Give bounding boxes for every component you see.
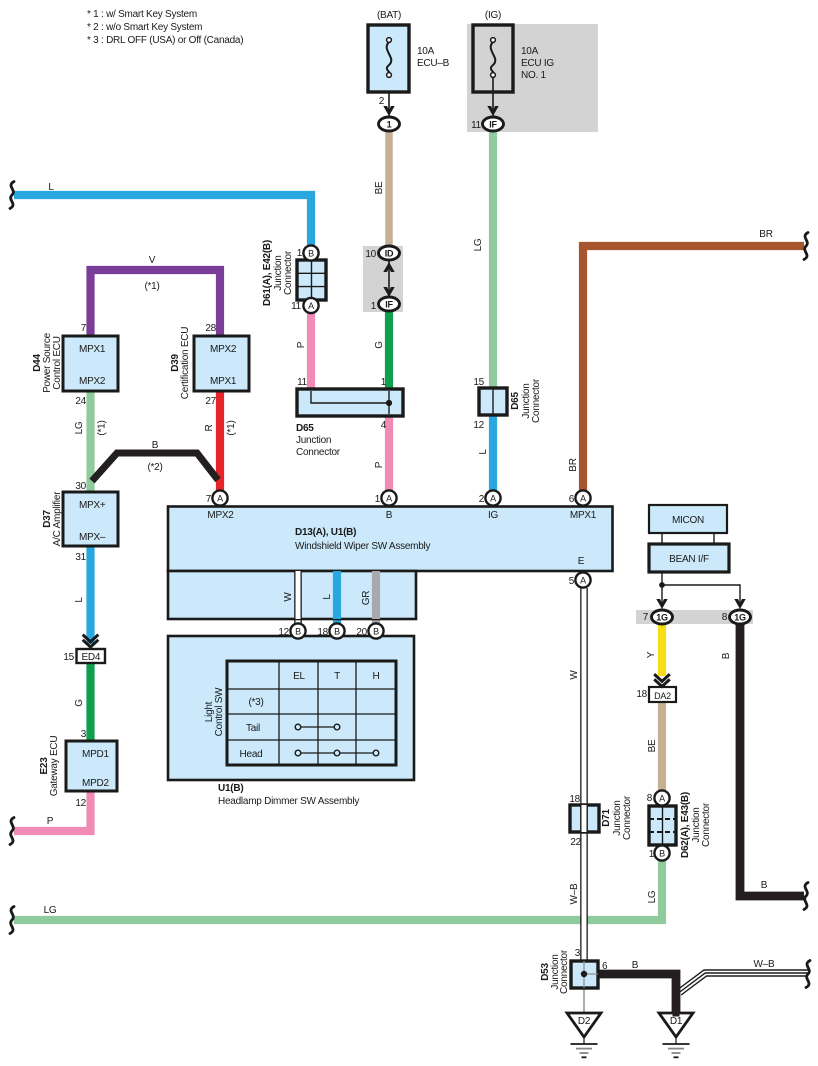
connector circle B (D61) — [303, 245, 318, 260]
svg-text:* 2 : w/o Smart Key System: * 2 : w/o Smart Key System — [87, 22, 202, 33]
svg-text:W–B: W–B — [569, 883, 580, 905]
wire GR (wiper box) — [372, 571, 380, 624]
re-draw wires over lower section — [298, 571, 376, 619]
svg-text:1: 1 — [381, 377, 387, 388]
svg-text:12: 12 — [75, 798, 86, 809]
svg-text:22: 22 — [570, 837, 581, 848]
svg-text:D1: D1 — [670, 1016, 683, 1027]
connector circle A2 — [485, 490, 500, 505]
svg-text:D61(A), E42(B): D61(A), E42(B) — [262, 240, 273, 306]
E23 labels — [39, 729, 109, 809]
table contacts tail — [298, 726, 337, 728]
connector circle A (D62) — [654, 790, 669, 805]
wire BR (cowl to 6A) — [583, 246, 804, 492]
svg-text:NO. 1: NO. 1 — [521, 70, 547, 81]
junction connector D62 — [649, 806, 676, 845]
svg-text:G: G — [374, 341, 385, 349]
BEAN I/F box — [649, 544, 729, 572]
svg-text:Tail: Tail — [246, 723, 260, 734]
svg-text:1: 1 — [371, 301, 377, 312]
ground D2 — [567, 1013, 601, 1057]
svg-text:MPX+: MPX+ — [79, 500, 106, 511]
svg-text:1G: 1G — [734, 613, 746, 623]
svg-text:1: 1 — [649, 849, 655, 860]
svg-text:(*1): (*1) — [144, 281, 159, 292]
gray panel (IG fuse area) — [467, 24, 598, 132]
arrow into circle 1 — [383, 106, 394, 116]
svg-text:3: 3 — [575, 948, 581, 959]
svg-text:G: G — [74, 699, 85, 707]
wire V (D44 to D39) — [91, 270, 221, 336]
wire W (5A to D53) — [580, 588, 588, 961]
svg-text:MPD2: MPD2 — [82, 778, 109, 789]
B circle pin numbers — [278, 627, 367, 638]
svg-text:7: 7 — [643, 612, 649, 623]
svg-text:E: E — [578, 556, 585, 567]
ECU box E23 — [66, 741, 117, 791]
chevrons into DA2 — [654, 674, 670, 686]
svg-text:B: B — [659, 849, 665, 859]
svg-text:20: 20 — [356, 627, 367, 638]
svg-text:24: 24 — [75, 396, 86, 407]
svg-text:1: 1 — [375, 494, 381, 505]
svg-text:(*1): (*1) — [226, 420, 237, 435]
svg-text:7: 7 — [206, 494, 212, 505]
svg-text:W–B: W–B — [754, 959, 776, 970]
connector circle A5 — [575, 572, 590, 587]
svg-text:6: 6 — [602, 961, 608, 972]
svg-text:BE: BE — [647, 739, 658, 752]
svg-text:8: 8 — [647, 793, 653, 804]
connector circle IF (lower) — [379, 297, 400, 311]
svg-text:V: V — [149, 255, 156, 266]
svg-text:1: 1 — [387, 120, 392, 130]
D53 labels — [540, 948, 608, 994]
svg-text:12: 12 — [278, 627, 289, 638]
connector circle 1G no8 — [730, 610, 751, 624]
svg-text:MPX–: MPX– — [79, 532, 106, 543]
D37 labels — [42, 481, 106, 563]
lead ID-IF — [388, 260, 390, 297]
svg-text:MPX1: MPX1 — [570, 510, 597, 521]
svg-text:(IG): (IG) — [485, 10, 501, 21]
svg-text:Connector: Connector — [701, 802, 712, 847]
junction connector D53 — [571, 961, 598, 988]
svg-text:Connector: Connector — [283, 250, 294, 295]
light control SW table — [227, 661, 396, 765]
gray block (ID/IF) — [363, 246, 403, 312]
svg-text:MPD1: MPD1 — [82, 749, 109, 760]
svg-text:A: A — [490, 494, 496, 504]
svg-text:10A: 10A — [521, 46, 539, 57]
D44 labels — [32, 323, 87, 407]
connector circle 1 (BAT) — [379, 117, 400, 131]
svg-text:LG: LG — [44, 905, 57, 916]
svg-text:27: 27 — [205, 396, 216, 407]
lead D53 to D2 — [583, 961, 585, 1013]
svg-text:A/C Amplifier: A/C Amplifier — [52, 491, 63, 546]
svg-text:18: 18 — [569, 794, 580, 805]
D39 labels — [170, 323, 237, 407]
ED4 box — [77, 649, 106, 663]
svg-text:A: A — [308, 301, 314, 311]
gray band (1G) — [636, 610, 753, 624]
wire R (D39 to 7A) — [216, 391, 224, 492]
DA2 box — [649, 687, 676, 702]
svg-text:P: P — [47, 816, 54, 827]
ECU box D44 — [63, 336, 118, 391]
svg-text:Gateway ECU: Gateway ECU — [49, 736, 60, 797]
wire W-B triple (cowl to D1) — [679, 970, 809, 995]
leads B circles to table — [297, 638, 299, 662]
junction connector D61 — [297, 260, 326, 300]
D61 labels — [262, 240, 303, 312]
svg-text:11: 11 — [297, 377, 308, 388]
svg-text:ED4: ED4 — [81, 652, 100, 663]
D71 labels — [569, 794, 633, 848]
wire P (E23 to cowl) — [14, 791, 91, 831]
wiper SW lower section — [168, 571, 416, 619]
svg-text:MPX1: MPX1 — [210, 376, 237, 387]
svg-text:EL: EL — [293, 671, 305, 682]
MICON box — [649, 505, 727, 533]
D65 small labels — [473, 377, 542, 431]
svg-text:BE: BE — [374, 181, 385, 194]
svg-text:(*2): (*2) — [147, 462, 162, 473]
wire Y (1G to DA2) — [658, 623, 666, 676]
svg-text:A: A — [386, 494, 392, 504]
svg-text:Windshield Wiper SW Assembly: Windshield Wiper SW Assembly — [295, 541, 431, 552]
svg-text:B: B — [308, 249, 314, 259]
wire BE (DA2 to D62) — [658, 702, 666, 791]
svg-text:A: A — [217, 494, 223, 504]
svg-text:R: R — [204, 424, 215, 431]
svg-text:IF: IF — [489, 120, 497, 130]
wire BE (fuse to ID) — [385, 130, 393, 247]
svg-text:BEAN I/F: BEAN I/F — [669, 554, 709, 565]
svg-text:MPX1: MPX1 — [79, 344, 106, 355]
ECU box D39 — [194, 336, 249, 391]
svg-text:D62(A), E43(B): D62(A), E43(B) — [680, 792, 691, 858]
svg-text:B: B — [761, 880, 768, 891]
svg-text:2: 2 — [479, 494, 485, 505]
svg-text:B: B — [386, 510, 393, 521]
svg-text:D2: D2 — [578, 1016, 591, 1027]
svg-text:L: L — [74, 597, 85, 603]
junction connector D71 — [570, 805, 599, 832]
svg-text:IF: IF — [385, 300, 393, 310]
svg-text:D65: D65 — [510, 392, 521, 410]
svg-text:P: P — [374, 461, 385, 468]
connector circle A (D61) — [303, 298, 318, 313]
leads MICON to BEAN — [661, 533, 663, 545]
D65 long labels — [296, 377, 387, 458]
big box pin labels — [206, 494, 575, 587]
node dot BEAN split — [659, 582, 665, 588]
connector circle B (D62) — [654, 845, 669, 860]
svg-text:D71: D71 — [601, 809, 612, 827]
svg-text:LG: LG — [647, 890, 658, 903]
svg-text:A: A — [580, 494, 586, 504]
svg-text:L: L — [322, 594, 333, 600]
svg-text:18: 18 — [636, 689, 647, 700]
wire L (cowl to D61) — [14, 195, 311, 247]
wire LG (D62 to cowl) — [14, 860, 662, 920]
svg-text:MPX2: MPX2 — [207, 510, 234, 521]
svg-text:6: 6 — [569, 494, 575, 505]
svg-text:11: 11 — [291, 301, 302, 312]
svg-text:Junction: Junction — [296, 435, 331, 446]
svg-text:* 1 : w/ Smart Key System: * 1 : w/ Smart Key System — [87, 9, 197, 20]
svg-text:5: 5 — [569, 576, 575, 587]
svg-text:A: A — [659, 794, 665, 804]
connector circle B20 — [368, 623, 383, 638]
svg-text:IG: IG — [488, 510, 499, 521]
connector circle B18 — [329, 623, 344, 638]
svg-text:28: 28 — [205, 323, 216, 334]
svg-text:10: 10 — [365, 249, 376, 260]
connector circle 1G no7 — [652, 610, 673, 624]
svg-text:8: 8 — [722, 612, 728, 623]
svg-text:MPX2: MPX2 — [79, 376, 106, 387]
table contacts head — [298, 752, 376, 754]
svg-text:18: 18 — [317, 627, 328, 638]
svg-text:W: W — [569, 670, 580, 680]
svg-text:U1(B): U1(B) — [218, 783, 243, 794]
svg-text:B: B — [373, 627, 379, 637]
svg-text:3: 3 — [81, 729, 87, 740]
svg-text:Control ECU: Control ECU — [52, 336, 63, 389]
connector circle ID — [379, 246, 400, 260]
wire B bridge (*2) — [92, 453, 218, 481]
svg-text:B: B — [721, 652, 732, 659]
wire B (1G to cowl) — [740, 623, 804, 896]
arrow into IF (fuse) — [487, 106, 498, 116]
ECU box D37 — [63, 492, 118, 546]
svg-text:L: L — [48, 182, 54, 193]
wire W (wiper box) — [294, 571, 302, 624]
svg-text:H: H — [373, 671, 380, 682]
svg-text:A: A — [580, 576, 586, 586]
svg-text:DA2: DA2 — [654, 691, 671, 701]
arrow down into IF — [383, 287, 394, 297]
wire L (wiper box) — [333, 571, 341, 624]
svg-text:Connector: Connector — [531, 378, 542, 423]
svg-text:Headlamp Dimmer SW Assembly: Headlamp Dimmer SW Assembly — [218, 796, 359, 807]
svg-text:Control SW: Control SW — [214, 687, 225, 736]
svg-text:BR: BR — [568, 458, 579, 471]
wire B (D53 to D1) — [598, 974, 676, 1013]
wire P (D65 to 1A) — [385, 415, 393, 492]
table labels — [240, 671, 380, 760]
arrow up into ID — [383, 262, 394, 272]
svg-text:BR: BR — [759, 229, 772, 240]
arrow into 1G no7 — [656, 599, 667, 609]
svg-text:B: B — [295, 627, 301, 637]
svg-text:2: 2 — [379, 96, 385, 107]
connector circle B12 — [290, 623, 305, 638]
svg-text:B: B — [632, 960, 639, 971]
lead fuse BAT — [388, 77, 390, 117]
wire LG (IF to D65) — [489, 130, 497, 389]
junction connector D65 (small) — [479, 388, 507, 415]
svg-text:15: 15 — [63, 652, 74, 663]
svg-text:Y: Y — [646, 651, 657, 658]
svg-text:B: B — [152, 440, 159, 451]
svg-text:(BAT): (BAT) — [377, 10, 401, 21]
svg-text:W: W — [283, 592, 294, 602]
D62 labels — [647, 792, 712, 860]
svg-text:(*3): (*3) — [248, 697, 263, 708]
arrow into 1G no8 — [734, 599, 745, 609]
svg-text:Connector: Connector — [622, 795, 633, 840]
leads BEAN to 1G — [661, 572, 663, 604]
svg-text:Connector: Connector — [296, 447, 341, 458]
svg-text:31: 31 — [75, 552, 86, 563]
ground D1 — [659, 1011, 693, 1057]
svg-text:* 3 : DRL OFF (USA) or Off (Ca: * 3 : DRL OFF (USA) or Off (Canada) — [87, 35, 243, 46]
svg-text:Head: Head — [240, 749, 263, 760]
svg-text:12: 12 — [473, 420, 484, 431]
svg-text:Connector: Connector — [559, 949, 570, 994]
wire P (D61 to D65) — [307, 312, 315, 390]
fuse ECU-B box (BAT) — [368, 25, 409, 92]
wire G (ED4 to E23) — [86, 663, 94, 741]
svg-text:15: 15 — [473, 377, 484, 388]
connector circle A1 — [381, 490, 396, 505]
svg-text:T: T — [334, 671, 340, 682]
wire LG (D44 to D37) — [86, 391, 94, 493]
lead fuse IG — [492, 77, 494, 117]
connector circle A6 — [575, 490, 590, 505]
svg-text:P: P — [296, 341, 307, 348]
svg-text:4: 4 — [381, 420, 387, 431]
svg-text:B: B — [334, 627, 340, 637]
wire L (D65 to 2A) — [489, 414, 497, 492]
svg-text:1: 1 — [297, 248, 303, 259]
svg-text:GR: GR — [361, 591, 372, 606]
connector circle A7 — [212, 490, 227, 505]
wire L (D37 to ED4) — [86, 546, 94, 644]
svg-text:L: L — [478, 449, 489, 455]
headlamp dimmer box U1(B) — [168, 636, 414, 780]
svg-text:LG: LG — [74, 421, 85, 434]
wire G (IF to D65) — [385, 311, 393, 390]
svg-text:10A: 10A — [417, 46, 435, 57]
svg-text:ECU–B: ECU–B — [417, 58, 450, 69]
svg-text:Certification ECU: Certification ECU — [180, 327, 191, 399]
svg-text:LG: LG — [473, 238, 484, 251]
svg-text:MPX2: MPX2 — [210, 344, 237, 355]
svg-text:ID: ID — [385, 249, 394, 259]
cowl squiggles — [10, 182, 14, 209]
svg-text:7: 7 — [81, 323, 87, 334]
svg-text:30: 30 — [75, 481, 86, 492]
svg-text:ECU IG: ECU IG — [521, 58, 554, 69]
svg-text:11: 11 — [471, 120, 482, 131]
svg-text:1G: 1G — [656, 613, 668, 623]
svg-text:(*1): (*1) — [97, 420, 108, 435]
chevrons into ED4 — [83, 635, 99, 647]
svg-text:D13(A), U1(B): D13(A), U1(B) — [295, 527, 356, 538]
wiper SW assembly box D13/U1 — [168, 507, 613, 572]
junction connector D65 (long) — [297, 389, 403, 416]
connector circle IF (fuse) — [483, 117, 504, 131]
fuse ECU IG box (IG) — [473, 25, 513, 92]
notes — [87, 9, 243, 46]
svg-text:D65: D65 — [296, 423, 314, 434]
svg-text:MICON: MICON — [672, 515, 704, 526]
